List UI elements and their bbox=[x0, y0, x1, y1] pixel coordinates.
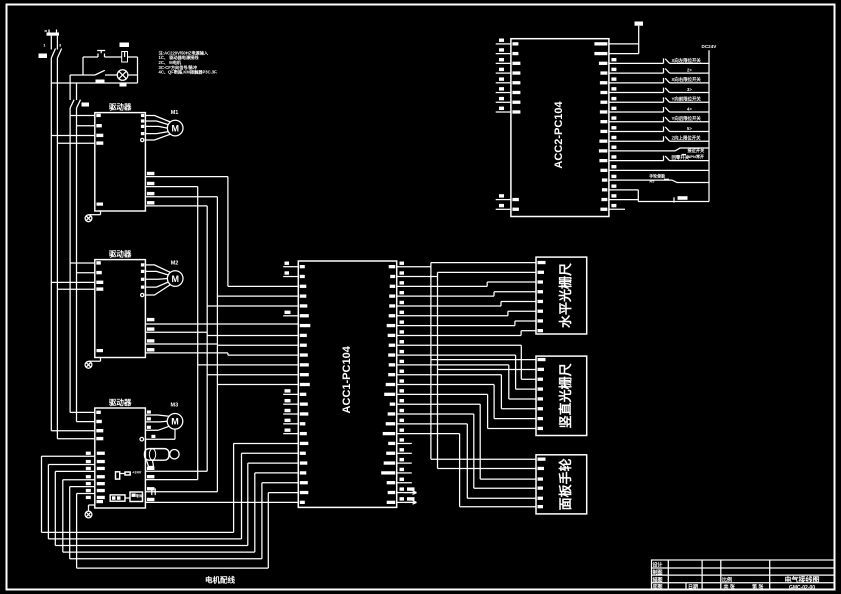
wire 0V distribution trunk bbox=[397, 272, 536, 468]
wire trunk x198 to ACC1 pin11 bbox=[198, 364, 299, 366]
wire driver2 B- to ACC1 pin10 bbox=[145, 353, 298, 355]
ACC2 left pin stubs and labels bbox=[496, 39, 521, 211]
circuit breaker QF bbox=[39, 48, 62, 58]
title block row labels bbox=[652, 562, 765, 591]
svg-text:A5: A5 bbox=[649, 178, 655, 183]
drawing number bbox=[789, 585, 815, 591]
push button SB bbox=[97, 51, 105, 58]
input switch row 10 (contact) bbox=[609, 126, 709, 132]
wire lamp circuit to supply bbox=[51, 82, 137, 84]
input switch row 4 (contact) bbox=[609, 67, 709, 73]
wire driver1 A- vertical trunk x198 bbox=[145, 187, 197, 480]
input row 15 wire (急停) bbox=[609, 173, 709, 184]
wire ACC1 to 水平光栅尺 signal 4 bbox=[397, 311, 536, 316]
motor wiring label 电机配线 bbox=[205, 575, 235, 585]
wire ACC2 pin1 to +5V bbox=[609, 43, 639, 45]
motor M3 bbox=[167, 403, 183, 430]
wire trunk x207 to ACC1 pin12 bbox=[207, 374, 298, 376]
svg-text:接近开关: 接近开关 bbox=[688, 147, 706, 154]
wire driver3 sig3 to trunk x217 bbox=[145, 487, 217, 495]
driver U3 ground bbox=[85, 500, 103, 518]
svg-text:驱动器: 驱动器 bbox=[109, 101, 132, 111]
wire driver2 A- to trunk x207 bbox=[145, 331, 207, 333]
svg-text:M: M bbox=[171, 124, 179, 134]
wire driver1 B- vertical trunk x207 bbox=[145, 206, 207, 471]
input switch row 8 (contact) bbox=[609, 106, 709, 112]
contactor contacts KM bbox=[70, 100, 89, 108]
title block table bbox=[652, 560, 835, 590]
svg-text:DC24V: DC24V bbox=[702, 44, 718, 49]
motor M1 bbox=[167, 110, 183, 136]
+5V supply flag bbox=[635, 22, 644, 54]
wire branch control N bbox=[76, 83, 78, 100]
relay contact block KA bbox=[110, 492, 143, 502]
svg-text:M1: M1 bbox=[171, 110, 179, 116]
svg-text:回零开关: 回零开关 bbox=[672, 154, 690, 161]
ACC2 right pin marks bbox=[594, 42, 616, 211]
wire ACC1 to 面板手轮 signal 4 bbox=[397, 434, 536, 507]
wire ACC1 to 面板手轮 signal 2 bbox=[397, 414, 536, 488]
wire ACC1 to 竖直光栅尺 signal 1 bbox=[397, 345, 536, 379]
svg-text:X向右限位开关: X向右限位开关 bbox=[672, 76, 702, 83]
wire limit bus 4 to ACC1 pin22 bbox=[63, 473, 298, 552]
motor M3 ground return wire bbox=[140, 429, 175, 441]
svg-text:驱动器: 驱动器 bbox=[109, 397, 132, 407]
linear scale block 竖直光栅尺 bbox=[536, 356, 587, 435]
wires supply to driver U3 bbox=[51, 411, 103, 441]
ACC1 right pin marks and labels bbox=[381, 265, 395, 504]
wire limit bus 6 to ACC1 pin24 bbox=[77, 493, 299, 569]
motor M1 phase wires bbox=[141, 114, 171, 142]
input row 17 wire with resistor bbox=[609, 196, 709, 202]
PC104 module ACC1-PC104 bbox=[298, 261, 396, 507]
ACC1 right pin group labels bbox=[400, 262, 405, 432]
svg-text:设计: 设计 bbox=[653, 562, 663, 569]
竖直光栅尺 pin labels bbox=[538, 358, 546, 430]
wire trunk x217 to ACC1 pin13 bbox=[217, 384, 298, 386]
svg-text:制动: 制动 bbox=[136, 493, 144, 498]
drawing title 电气接线图 bbox=[785, 575, 820, 584]
PC104 module ACC2-PC104 bbox=[511, 39, 609, 217]
svg-text:NPN常开: NPN常开 bbox=[688, 153, 704, 159]
wire ACC1 to 竖直光栅尺 signal 6 bbox=[397, 394, 536, 428]
ACC1 left stub pins bbox=[283, 262, 298, 434]
driver U1 (驱动器) bbox=[95, 101, 146, 211]
wire limit bus 5 to ACC1 pin23 bbox=[70, 483, 299, 559]
svg-text:Y向前限位开关: Y向前限位开关 bbox=[672, 96, 702, 103]
wire +5V distribution trunk bbox=[397, 263, 536, 460]
svg-text:电气接线图: 电气接线图 bbox=[785, 575, 820, 584]
supply bus N wire bbox=[56, 58, 58, 439]
wire limit bus 1 to ACC1 pin19 bbox=[42, 443, 299, 532]
input row 18 stub bbox=[609, 208, 625, 210]
svg-text:面板手轮: 面板手轮 bbox=[558, 458, 573, 510]
svg-text:M3: M3 bbox=[171, 403, 179, 409]
notes text block bbox=[159, 50, 218, 76]
svg-text:ACC1-PC104: ACC1-PC104 bbox=[341, 345, 353, 413]
wire driver2 A+ to ACC1 pin7 bbox=[145, 324, 298, 326]
wire ACC1 to 水平光栅尺 signal 1 bbox=[397, 282, 536, 286]
wire trunk x217 to ACC1 pin9 bbox=[217, 344, 298, 346]
supply bus L wire bbox=[50, 58, 52, 431]
wires supply to driver U1 bbox=[51, 116, 95, 144]
indicator lamp HL bbox=[117, 70, 128, 87]
wire ACC1 to 水平光栅尺 signal 2 bbox=[397, 292, 536, 296]
svg-text:X向左限位开关: X向左限位开关 bbox=[672, 57, 702, 64]
wire ACC1 to 水平光栅尺 signal 6 bbox=[397, 331, 536, 336]
svg-text:水平光栅尺: 水平光栅尺 bbox=[558, 263, 573, 328]
wire driver1 B+ vertical trunk x217 bbox=[145, 197, 217, 492]
svg-text:GMC-02-00: GMC-02-00 bbox=[789, 585, 815, 591]
motor M2 phase wires bbox=[141, 263, 171, 296]
svg-text:5>: 5> bbox=[687, 126, 692, 131]
svg-text:+24V: +24V bbox=[132, 470, 141, 474]
svg-text:比例: 比例 bbox=[722, 576, 732, 583]
brake solenoid YB bbox=[145, 449, 180, 467]
driver U2 (驱动器) bbox=[95, 248, 146, 357]
input switch row 13 bbox=[609, 154, 709, 161]
svg-text:Z向上限位开关: Z向上限位开关 bbox=[672, 135, 702, 142]
水平光栅尺 pin labels bbox=[538, 261, 546, 332]
wire ACC1 to 竖直光栅尺 signal 2 bbox=[397, 355, 536, 389]
svg-text:M: M bbox=[171, 417, 179, 427]
svg-text:驱动器: 驱动器 bbox=[109, 248, 132, 258]
wire driver3 sig2 to trunk x198 bbox=[145, 475, 197, 480]
svg-text:M2: M2 bbox=[171, 261, 179, 267]
wire ACC1 to 竖直光栅尺 signal 3 bbox=[397, 365, 536, 399]
wire ACC1 to 面板手轮 signal 3 bbox=[397, 424, 536, 498]
DC24V bus wire bbox=[708, 50, 710, 201]
wire trunk x207 to ACC1 pin8 bbox=[207, 334, 298, 336]
input row 14 wire bbox=[609, 169, 709, 171]
DC24V supply label bbox=[702, 44, 718, 49]
input switch row 9 (Y向后限位开关) bbox=[609, 115, 709, 122]
proximity switch row (接近开关) bbox=[609, 147, 709, 159]
svg-text:3>: 3> bbox=[687, 87, 692, 92]
svg-text:竖直光栅尺: 竖直光栅尺 bbox=[558, 363, 573, 428]
wire driver3 sig4 to ACC1 pin25 bbox=[145, 498, 298, 503]
svg-text:共 张: 共 张 bbox=[724, 584, 736, 591]
input switch row 6 (contact) bbox=[609, 87, 709, 93]
svg-text:M: M bbox=[171, 274, 179, 284]
power plug connector XP bbox=[43, 30, 62, 48]
driver U2 signal pins bbox=[147, 318, 155, 352]
control lamp circuit loop bbox=[83, 57, 138, 83]
brake resistor circuit bbox=[116, 470, 142, 479]
wire driver2 B+ to trunk x217 bbox=[145, 343, 217, 345]
wire ACC1 to 竖直光栅尺 signal 4 bbox=[397, 375, 536, 409]
driver U1 signal pins bbox=[147, 172, 155, 205]
svg-text:4>: 4> bbox=[687, 106, 692, 111]
motor M3 phase wires bbox=[145, 410, 169, 430]
fuse FU bbox=[120, 43, 130, 63]
wires supply to driver U2 bbox=[51, 263, 95, 289]
svg-text:底图: 底图 bbox=[652, 584, 663, 591]
svg-text:电机配线: 电机配线 bbox=[205, 575, 235, 585]
svg-text:ACC2-PC104: ACC2-PC104 bbox=[553, 100, 565, 168]
svg-text:描图: 描图 bbox=[652, 576, 663, 583]
wire driver1 A+ to ACC1 pin3 bbox=[145, 177, 298, 287]
wire limit bus 2 to ACC1 pin20 bbox=[48, 453, 298, 539]
handwheel block 面板手轮 bbox=[536, 455, 587, 514]
wire trunk x207 to ACC1 pin5 bbox=[207, 305, 298, 307]
linear scale block 水平光栅尺 bbox=[536, 257, 587, 334]
input switch row 3 (X向左限位开关) bbox=[609, 57, 709, 64]
svg-text:4C、QF断路,KM接触器P3C.3F.: 4C、QF断路,KM接触器P3C.3F. bbox=[159, 68, 218, 75]
wire plug to breaker bbox=[51, 36, 57, 48]
input switch row 7 (Y向前限位开关) bbox=[609, 96, 709, 103]
wire driver3 sig1 to trunk x207 bbox=[145, 467, 207, 472]
control bus wire 2 bbox=[76, 108, 78, 422]
driver U2 ground bbox=[85, 349, 103, 368]
driver U1 ground bbox=[85, 203, 103, 222]
input switch row 11 (Z向上限位开关) bbox=[609, 135, 709, 142]
wire trunk x217 to ACC1 pin4 bbox=[217, 295, 298, 297]
svg-text:2>: 2> bbox=[687, 67, 692, 72]
wire ACC1 to 竖直光栅尺 signal 5 bbox=[397, 385, 536, 419]
wire branch control L bbox=[70, 75, 83, 100]
control bus wire 1 bbox=[69, 108, 71, 412]
面板手轮 pin labels bbox=[538, 458, 546, 509]
wire ACC1 to 水平光栅尺 signal 5 bbox=[397, 321, 536, 326]
svg-text:第 张: 第 张 bbox=[752, 584, 764, 591]
svg-text:日期: 日期 bbox=[688, 584, 698, 591]
driver U3 left pin labels bbox=[86, 452, 105, 499]
wire limit bus 3 to ACC1 pin21 bbox=[55, 463, 298, 545]
wire ACC1 to 水平光栅尺 signal 3 bbox=[397, 302, 536, 306]
motor M2 bbox=[167, 261, 183, 287]
switch SA bbox=[95, 70, 105, 83]
input switch row 5 (X向右限位开关) bbox=[609, 76, 709, 83]
wire ACC2 pin2 to +5V bbox=[609, 53, 639, 55]
ACC1 left pin marks and labels bbox=[300, 265, 311, 504]
wire ACC1 to 面板手轮 signal 1 bbox=[397, 404, 536, 479]
svg-text:Y向后限位开关: Y向后限位开关 bbox=[672, 115, 702, 122]
driver U3 (驱动器) bbox=[95, 397, 146, 508]
svg-text:制图: 制图 bbox=[653, 569, 663, 576]
ACC1 right stub pins bbox=[397, 438, 417, 504]
input row 16 wire bbox=[609, 190, 638, 202]
